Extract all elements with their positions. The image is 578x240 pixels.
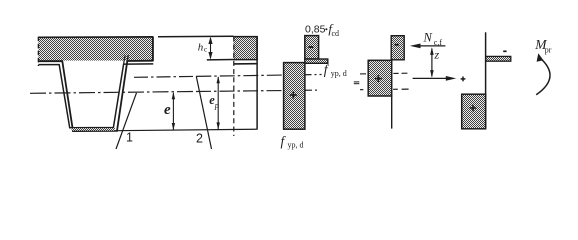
svg-text:0,85: 0,85 (305, 23, 326, 35)
minus sign above strip (503, 50, 506, 52)
figure 2 sheeting second line (233, 63, 257, 65)
stress diagram 3 axis (485, 32, 487, 129)
label M_pr (534, 37, 552, 55)
concrete slab hatched area (39, 37, 154, 60)
steel sheeting inner profile line (38, 64, 153, 128)
moment arc arrow M_pr (536, 53, 550, 95)
e dimension line with arrowheads (172, 92, 175, 130)
stress diagram 1: concrete compression block (305, 36, 319, 59)
stress diagram 3: tension block (462, 94, 486, 129)
steel sheeting outer profile line (38, 61, 153, 131)
minus sign in diagram 2 block (395, 44, 399, 46)
svg-text:cd: cd (332, 29, 340, 38)
label 0,85 f_cd (305, 21, 339, 38)
figure 2 right edge vertical (256, 36, 258, 129)
slab left cut dashed edge (37, 37, 39, 66)
plus sign in diagram 3 block (470, 105, 476, 111)
centroidal axis dash-dot line (upper reference line) (134, 73, 407, 77)
z dimension line with arrowheads (430, 47, 434, 77)
tension force arrow pointing right (413, 76, 457, 81)
right web lines extending into slab (126, 55, 129, 61)
svg-text:N: N (423, 30, 433, 44)
equals sign (354, 81, 360, 84)
stress diagram 2: sheeting tension block (368, 60, 392, 96)
N_c,f force arrow (410, 44, 446, 49)
plus sign between diagrams (461, 77, 466, 82)
svg-text:1: 1 (126, 131, 133, 145)
svg-text:yp, d: yp, d (331, 69, 347, 78)
label 2 leader line (196, 76, 211, 149)
label f_yp,d (lower) (281, 134, 304, 150)
label N_c,f (423, 30, 443, 47)
svg-text:z: z (434, 48, 440, 62)
label f_yp,d (upper) (324, 62, 347, 78)
stress diagram 1: sheeting tension block (284, 63, 305, 130)
slab right edge (152, 37, 154, 62)
sheeting bottom flange hatch band (72, 128, 116, 131)
minus sign in concrete block (308, 46, 313, 48)
vertical dashed line (233, 36, 235, 136)
svg-text:p: p (214, 100, 219, 110)
svg-text:pr: pr (545, 45, 552, 54)
bottom baseline (116, 129, 258, 131)
plastic neutral axis dash-dot line (lower reference line) (30, 89, 409, 93)
diagram 2 axis below block (391, 96, 393, 129)
stress diagram 2: concrete compression block (391, 36, 404, 60)
h_c bottom line (207, 59, 234, 61)
stress diagram 1: sheeting compression strip (305, 59, 328, 63)
svg-text:h: h (198, 42, 204, 54)
svg-text:c,f: c,f (434, 38, 443, 47)
h_c dimension line with arrowheads (208, 37, 212, 60)
svg-text:e: e (164, 102, 171, 118)
slab top edge line (38, 36, 153, 38)
label 1 leader line (116, 93, 137, 149)
stress diagram 3: compression strip (486, 56, 511, 61)
plus sign in tension block (290, 92, 297, 99)
svg-text:2: 2 (196, 132, 203, 146)
svg-text:yp, d: yp, d (288, 141, 304, 150)
figure 2 hatched block (233, 36, 257, 59)
plus sign in diagram 2 block (375, 75, 382, 82)
figure 2 top surface line (158, 35, 234, 38)
e_p dimension line with arrowheads (217, 76, 220, 130)
